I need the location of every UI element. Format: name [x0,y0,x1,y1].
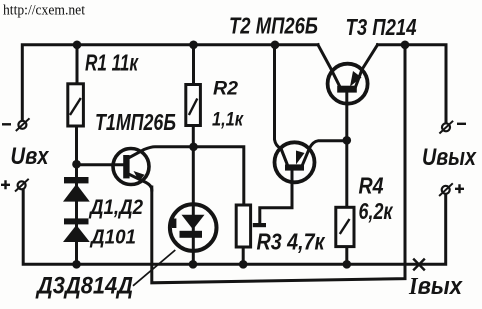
node T3 base [343,136,352,145]
zener diode D3 [170,204,217,251]
svg-text:Т3 П214: Т3 П214 [346,14,417,40]
wire R2 bottom through zener D3 [192,126,195,265]
svg-text:Iвых: Iвых [408,273,463,300]
svg-text:Т1МП26Б: Т1МП26Б [95,109,176,135]
svg-text:http://cxem.net: http://cxem.net [3,3,86,19]
node T1 base tap [72,160,81,169]
node rail-T2 [271,41,280,50]
wire top rail right segment [378,45,447,123]
wire R4 top lead [345,140,348,207]
svg-text:1,1к: 1,1к [212,109,244,131]
wire R3 bottom lead [242,247,245,264]
svg-text:R3 4,7к: R3 4,7к [257,229,326,255]
terminal output plus [439,183,464,196]
svg-text:R4: R4 [359,173,384,199]
wire output sense line (right vertical + lower horizontal + T1 emitter vertical) [152,45,405,283]
wire top rail left segment [22,45,318,121]
resistor R4 [336,207,354,246]
wire T3 collector diagonal [356,45,378,87]
node R2-T1 collector [189,143,198,152]
wire R1 bottom through diode stack [75,126,78,264]
terminal output minus [439,121,466,134]
node diode bottom [72,260,81,269]
svg-text:R1 11к: R1 11к [85,50,139,76]
terminal input plus [1,179,29,192]
wire T2 collector to T3 base junction [303,141,347,165]
current break marker X (Ivyh) [413,259,425,271]
wire T3 base lead [345,93,348,141]
node rail-sense [401,41,410,50]
svg-text:Uвх: Uвх [11,143,50,170]
resistor R2 [186,85,201,126]
wire T2 emitter drop [275,45,288,165]
wire R1 top lead [76,45,79,84]
node zener bottom [189,260,198,269]
svg-text:Т2 МП26Б: Т2 МП26Б [229,13,318,39]
wire R2 top lead [192,45,195,85]
transistor T1 [113,149,149,185]
wire T1 base lead [77,163,124,166]
wire bottom rail [23,191,446,265]
svg-text:Д3Д814Д: Д3Д814Д [35,273,133,300]
wire T2 base lead down to R3 wiper [260,171,292,225]
node R3 bottom [239,260,248,269]
node rail-R2 [189,41,198,50]
resistor R3 (with wiper tap) [236,205,266,247]
terminal input minus [2,118,30,131]
svg-text:Д1,Д2: Д1,Д2 [88,195,143,219]
wire R4 bottom lead [345,247,348,265]
svg-text:Uвых: Uвых [422,144,477,171]
svg-text:6,2к: 6,2к [359,198,394,224]
diode D1 [63,177,90,202]
node rail-R1 [73,41,82,50]
resistor R1 [68,84,84,126]
wire T1 emitter lead [129,174,152,190]
label pointer line for D3 [133,250,175,286]
transistor T2 [275,142,315,182]
wire T1 collector lead + horizontal to R3 drop [129,147,244,206]
diode D2 [63,218,90,242]
transistor T3 [328,64,368,104]
wire T3 emitter diagonal [318,45,340,87]
svg-text:R2: R2 [213,78,238,100]
node R4 bottom [343,260,352,269]
svg-text:Д101: Д101 [89,227,136,249]
